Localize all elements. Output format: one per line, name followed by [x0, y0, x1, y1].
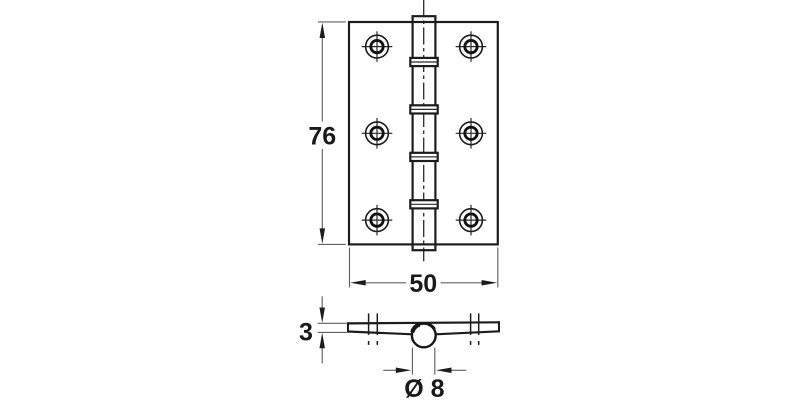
dim 50 line left segment — [350, 280, 406, 286]
screw hole H1 top-left — [362, 31, 393, 62]
dim Ø8 extension line left — [411, 348, 413, 375]
hinge leaf plate outline — [349, 22, 498, 244]
dim Ø8 right arrow — [436, 368, 466, 374]
dim 76 line lower segment — [320, 149, 326, 244]
bottom view: screw hole ticks right pair — [471, 313, 479, 345]
dim 76 line upper segment — [320, 23, 326, 122]
pin centerline — [423, 0, 425, 261]
bottom view: screw hole ticks left pair — [369, 313, 378, 345]
svg-text:50: 50 — [409, 270, 437, 298]
dim Ø8 left arrow — [383, 368, 411, 374]
screw hole H4 mid-right — [456, 118, 487, 149]
dim 76 extension line top — [318, 21, 346, 23]
knuckle band B4 — [410, 200, 437, 208]
dim 76 extension line bottom — [318, 243, 346, 245]
screw hole H3 mid-left — [362, 118, 393, 149]
bottom view: left knuckle curl arc — [412, 324, 419, 332]
dim 50 extension line left — [349, 248, 351, 288]
bottom view: left end cap — [347, 322, 349, 332]
dim Ø8 label — [404, 375, 444, 400]
bottom view: pin circle — [412, 324, 436, 348]
knuckle band B2 — [410, 105, 437, 113]
dim 50 label — [409, 270, 437, 298]
bottom view: right end cap — [498, 321, 500, 332]
dim Ø8 extension line right — [434, 348, 436, 375]
dim 76 label — [308, 122, 336, 150]
bottom view: right leaf bottom edge — [436, 331, 500, 334]
knuckle band B1 — [410, 58, 437, 66]
dim 50 line right segment — [441, 280, 498, 286]
bottom view: leaf top edge — [348, 322, 499, 323]
svg-text:Ø 8: Ø 8 — [404, 375, 444, 400]
knuckle band B3 — [410, 153, 437, 161]
dim 3 extension line bottom — [318, 331, 347, 333]
dim 50 extension line right — [497, 248, 499, 288]
dim 3 extension line top — [318, 322, 347, 324]
screw hole H2 top-right — [456, 31, 487, 62]
dim 3 lower arrow — [319, 333, 325, 364]
dim 3 label — [299, 318, 313, 346]
hinge barrel outline — [413, 16, 436, 250]
bottom view: right knuckle curl arc — [429, 324, 435, 329]
dim 3 upper arrow — [319, 296, 325, 323]
screw hole H6 bottom-right — [456, 205, 487, 236]
screw hole H5 bottom-left — [362, 205, 393, 236]
bottom view: left leaf bottom edge — [348, 332, 413, 335]
svg-text:3: 3 — [299, 318, 313, 346]
svg-text:76: 76 — [308, 122, 336, 150]
